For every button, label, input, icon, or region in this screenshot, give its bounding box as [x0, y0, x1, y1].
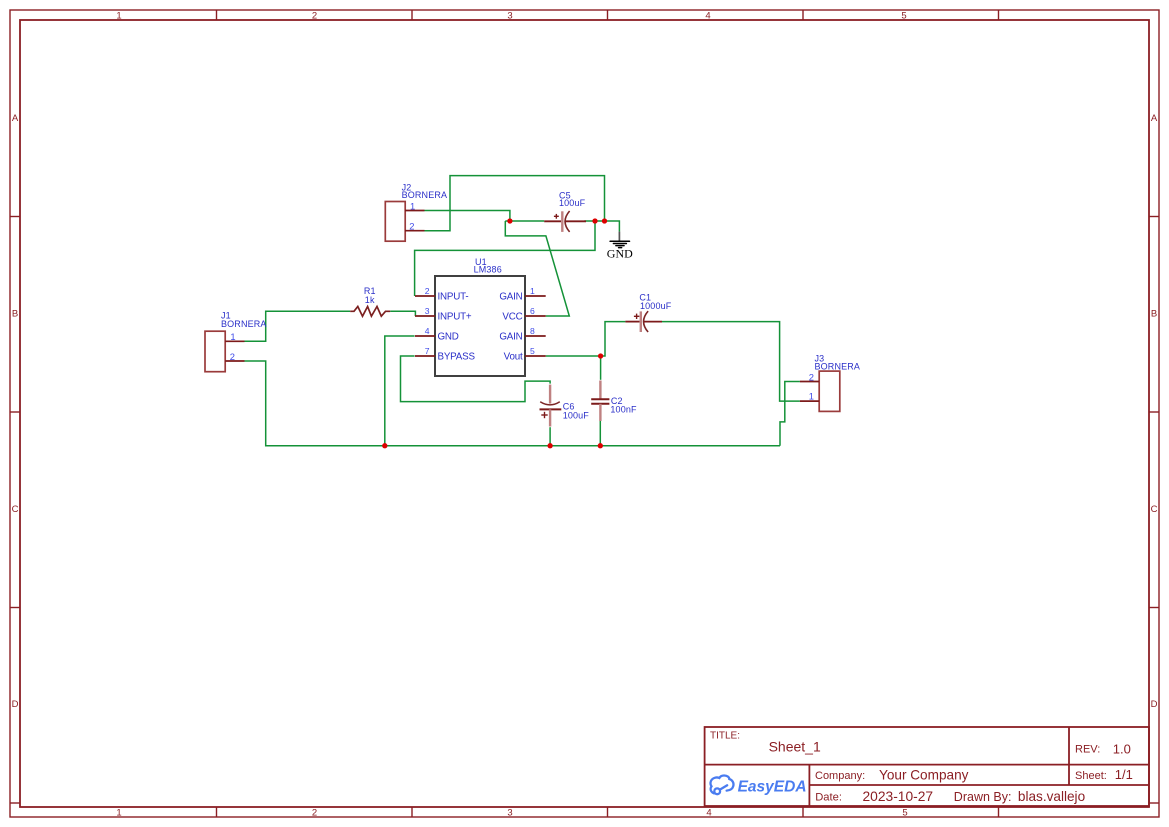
svg-text:Vout: Vout	[504, 352, 523, 363]
svg-text:1: 1	[809, 391, 814, 402]
svg-text:D: D	[1151, 699, 1158, 710]
svg-text:C: C	[12, 504, 19, 515]
svg-text:INPUT+: INPUT+	[438, 312, 472, 323]
svg-text:5: 5	[901, 11, 906, 22]
svg-text:3: 3	[425, 306, 430, 316]
svg-text:1: 1	[116, 808, 121, 819]
svg-text:4: 4	[425, 326, 430, 336]
svg-text:A: A	[12, 113, 19, 124]
svg-text:VCC: VCC	[502, 312, 522, 323]
svg-text:GND: GND	[438, 332, 459, 343]
svg-text:100uF: 100uF	[559, 198, 586, 208]
svg-text:GAIN: GAIN	[499, 332, 522, 343]
svg-text:100nF: 100nF	[610, 405, 637, 415]
svg-text:TITLE:: TITLE:	[710, 731, 740, 742]
svg-text:1.0: 1.0	[1113, 741, 1131, 756]
svg-text:100uF: 100uF	[563, 411, 590, 421]
svg-text:A: A	[1151, 113, 1158, 124]
svg-text:blas.vallejo: blas.vallejo	[1018, 789, 1085, 804]
svg-text:2023-10-27: 2023-10-27	[863, 789, 934, 804]
svg-text:1/1: 1/1	[1115, 767, 1133, 782]
svg-text:1k: 1k	[365, 295, 375, 305]
svg-text:2: 2	[425, 286, 430, 296]
svg-text:2: 2	[409, 221, 414, 232]
svg-text:1: 1	[530, 286, 535, 296]
svg-text:1: 1	[410, 201, 415, 212]
svg-text:3: 3	[507, 11, 512, 22]
svg-text:4: 4	[706, 808, 711, 819]
svg-text:2: 2	[230, 351, 235, 362]
svg-text:3: 3	[507, 808, 512, 819]
svg-text:Drawn By:: Drawn By:	[954, 790, 1012, 804]
svg-text:D: D	[12, 699, 19, 710]
svg-text:5: 5	[902, 808, 907, 819]
svg-text:BORNERA: BORNERA	[815, 362, 861, 372]
svg-text:5: 5	[530, 346, 535, 356]
svg-text:BORNERA: BORNERA	[402, 190, 448, 200]
svg-text:Date:: Date:	[815, 792, 842, 804]
svg-text:REV:: REV:	[1075, 743, 1100, 755]
svg-text:2: 2	[809, 371, 814, 382]
svg-text:B: B	[12, 309, 18, 320]
svg-text:B: B	[1151, 309, 1157, 320]
svg-text:7: 7	[425, 346, 430, 356]
svg-text:Company:: Company:	[815, 770, 865, 782]
svg-text:8: 8	[530, 326, 535, 336]
svg-text:GAIN: GAIN	[499, 292, 522, 303]
svg-text:Your Company: Your Company	[879, 768, 969, 783]
svg-text:1: 1	[116, 11, 121, 22]
svg-text:6: 6	[530, 306, 535, 316]
svg-text:1000uF: 1000uF	[640, 301, 672, 311]
svg-text:2: 2	[312, 11, 317, 22]
svg-text:Sheet:: Sheet:	[1075, 770, 1107, 782]
svg-text:GND: GND	[607, 247, 633, 261]
svg-text:Sheet_1: Sheet_1	[769, 738, 821, 754]
svg-text:4: 4	[705, 11, 710, 22]
svg-text:2: 2	[312, 808, 317, 819]
svg-text:EasyEDA: EasyEDA	[738, 778, 807, 795]
svg-text:1: 1	[230, 331, 235, 342]
svg-text:LM386: LM386	[474, 265, 502, 275]
svg-text:BYPASS: BYPASS	[438, 352, 476, 363]
svg-text:INPUT-: INPUT-	[438, 292, 469, 303]
svg-text:C: C	[1151, 504, 1158, 515]
svg-text:BORNERA: BORNERA	[221, 319, 267, 329]
